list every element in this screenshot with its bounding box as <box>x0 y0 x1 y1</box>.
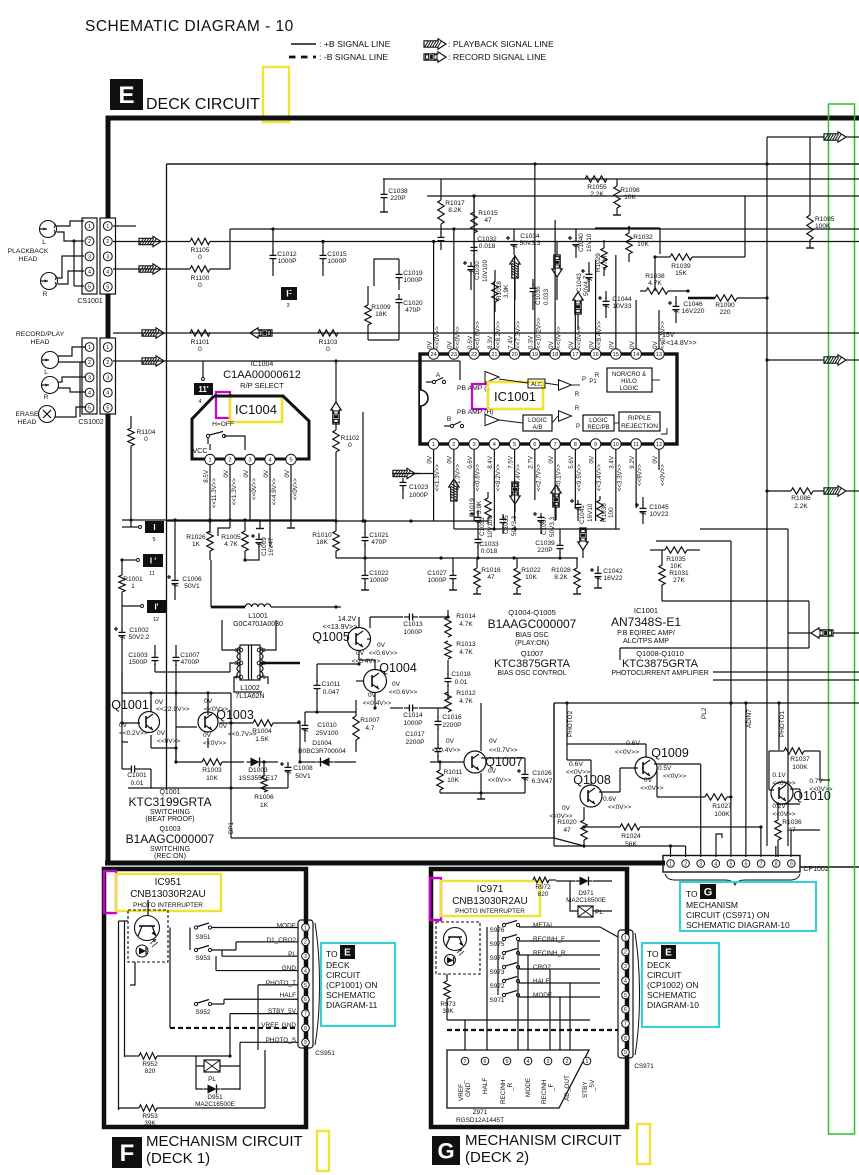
switch S974 <box>490 949 600 963</box>
svg-text:C1007: C1007 <box>180 652 200 659</box>
svg-text:0V: 0V <box>392 681 401 688</box>
record/play head label <box>16 331 65 346</box>
playback arrow 2 <box>139 264 161 274</box>
wires transformer <box>155 620 300 692</box>
IC1001 pin 3 voltage <box>467 455 482 491</box>
IC1001 pin 11 <box>631 439 641 449</box>
svg-text:S972: S972 <box>490 983 505 990</box>
svg-text:LOGIC: LOGIC <box>620 386 639 392</box>
IC1001 pin 10 <box>611 439 621 449</box>
IC1004 pin 4 <box>265 454 275 464</box>
svg-text:2200P: 2200P <box>405 739 425 746</box>
IC1001 pin 4 voltage <box>487 455 502 491</box>
IC1001 PB AMP H <box>457 409 499 426</box>
svg-text:G: G <box>437 1138 454 1163</box>
svg-text:2: 2 <box>106 239 109 245</box>
svg-text:PL: PL <box>595 909 603 916</box>
svg-text:R1001: R1001 <box>123 576 143 583</box>
magenta highlight IC1004 <box>216 392 230 418</box>
svg-text:50V3.3: 50V3.3 <box>549 516 556 537</box>
svg-text:15: 15 <box>613 352 619 358</box>
svg-text:1: 1 <box>262 675 265 681</box>
svg-text:R1101: R1101 <box>191 339 210 346</box>
svg-text:0V: 0V <box>446 738 455 745</box>
svg-text:CIRCUIT (CS971) ON: CIRCUIT (CS971) ON <box>686 910 769 920</box>
label Q1001 type <box>129 789 212 823</box>
playback head label <box>8 248 49 263</box>
IC1004 pin 3 <box>245 454 255 464</box>
svg-text:R1024: R1024 <box>621 833 641 840</box>
wires heads to CS1002 <box>55 347 86 417</box>
svg-text:CNB13030R2AU: CNB13030R2AU <box>130 889 206 900</box>
svg-text:R1015: R1015 <box>478 210 498 217</box>
svg-text:0V: 0V <box>652 340 659 349</box>
IC1001 pin 16 <box>590 349 600 359</box>
IC1004 pin3 voltage <box>243 469 258 500</box>
svg-text:4.7K: 4.7K <box>459 621 473 628</box>
svg-text:METAL: METAL <box>533 922 554 929</box>
svg-text:P1: P1 <box>589 379 597 385</box>
svg-text:5: 5 <box>106 285 109 291</box>
IC1004 switch <box>206 421 245 450</box>
svg-text:50V1: 50V1 <box>184 583 200 590</box>
svg-text:0V: 0V <box>219 723 228 730</box>
transformer L1002 <box>234 645 265 700</box>
IC1001 pin 13 <box>654 349 664 359</box>
resistor R1001 <box>119 575 143 630</box>
svg-text:PL: PL <box>208 1076 216 1083</box>
svg-text:1: 1 <box>432 442 435 448</box>
yellow highlight IC971 <box>441 881 540 916</box>
svg-text:8: 8 <box>624 1036 627 1042</box>
svg-text:S971: S971 <box>490 997 505 1004</box>
resistor R1006 <box>254 760 274 809</box>
svg-text:3: 3 <box>286 303 289 309</box>
svg-text:16V22: 16V22 <box>603 575 622 582</box>
svg-text:<<0V>>: <<0V>> <box>488 777 511 784</box>
svg-text:8: 8 <box>775 861 778 867</box>
svg-text:0V: 0V <box>356 650 365 657</box>
svg-text:8.3V: 8.3V <box>487 335 494 349</box>
svg-text:1: 1 <box>624 935 627 941</box>
svg-text:25V100: 25V100 <box>316 730 339 737</box>
svg-text:6: 6 <box>484 1059 487 1065</box>
svg-text:R1027: R1027 <box>712 803 732 810</box>
transistor Q1010 <box>771 772 833 818</box>
svg-text:R1003: R1003 <box>202 767 222 774</box>
svg-text:: PLAYBACK SIGNAL LINE: : PLAYBACK SIGNAL LINE <box>448 39 554 49</box>
resistor R1038 <box>640 255 688 294</box>
svg-text:D1_CRO2: D1_CRO2 <box>267 937 297 944</box>
svg-text:<<8.2V>>: <<8.2V>> <box>495 321 502 349</box>
svg-text:L: L <box>44 369 48 376</box>
svg-text:C1033: C1033 <box>479 541 499 548</box>
svg-text:0V: 0V <box>629 340 636 349</box>
capacitor C1001 <box>122 740 151 788</box>
capacitor C1026 <box>517 758 553 793</box>
svg-text:0: 0 <box>198 346 202 353</box>
svg-text:C1026: C1026 <box>532 770 552 777</box>
svg-text:C1012: C1012 <box>277 251 297 258</box>
IC1001 pin 7 <box>550 439 560 449</box>
svg-text:I ': I ' <box>150 556 156 565</box>
yellow highlight near G label <box>637 1124 650 1164</box>
svg-text:C1035: C1035 <box>503 515 510 534</box>
svg-text:<<0V>>: <<0V>> <box>772 780 795 787</box>
svg-text:R1031: R1031 <box>669 570 689 577</box>
svg-text:16V220: 16V220 <box>682 308 705 315</box>
svg-text:3: 3 <box>262 648 265 654</box>
svg-text:R1020: R1020 <box>557 819 577 826</box>
capacitor C1042 <box>590 566 623 588</box>
IC1001 pin 8 voltage <box>568 455 583 491</box>
svg-text:HALF: HALF <box>482 1078 489 1094</box>
svg-text:0V: 0V <box>284 469 291 477</box>
svg-text:KTC3875GRTA: KTC3875GRTA <box>494 658 571 670</box>
svg-text:<<0V>>: <<0V>> <box>556 326 563 349</box>
svg-text:4.7M: 4.7M <box>602 256 609 270</box>
svg-text:R1018: R1018 <box>496 281 503 300</box>
svg-text:0V: 0V <box>562 805 571 812</box>
svg-text:4: 4 <box>106 391 109 397</box>
svg-text:PHOTO1: PHOTO1 <box>779 710 786 737</box>
svg-text:P: P <box>576 424 580 430</box>
svg-text:4: 4 <box>268 458 271 464</box>
svg-text:C1043: C1043 <box>576 273 583 292</box>
capacitor C1037 <box>533 512 556 537</box>
capacitor C1031 <box>470 510 494 538</box>
svg-text:MECHANISM: MECHANISM <box>686 900 738 910</box>
svg-text:3: 3 <box>88 375 91 381</box>
svg-text:HALF: HALF <box>533 978 549 985</box>
svg-text:<<0V>>: <<0V>> <box>454 326 461 349</box>
transistor Q1007 <box>464 751 523 784</box>
svg-text:R1013: R1013 <box>456 641 476 648</box>
resistor R1022 <box>513 558 541 594</box>
svg-text:BIAS OSC: BIAS OSC <box>515 632 548 639</box>
IC1001 pin 24 voltage <box>426 326 441 349</box>
svg-text:4: 4 <box>493 442 496 448</box>
svg-text:<<0V>>: <<0V>> <box>659 464 666 486</box>
resistor R1015 <box>471 194 498 233</box>
junction top right <box>765 296 768 299</box>
svg-text:CS1002: CS1002 <box>78 419 103 426</box>
svg-text:8.2K: 8.2K <box>448 207 462 214</box>
playback arrow right mid <box>765 355 859 365</box>
net label ADIN7 <box>746 709 753 728</box>
capacitor C1014 <box>390 705 448 728</box>
svg-text:7: 7 <box>554 442 557 448</box>
svg-text:C1009: C1009 <box>261 537 268 556</box>
svg-text:7L1A62N: 7L1A62N <box>235 693 264 700</box>
svg-text:0V: 0V <box>223 469 230 477</box>
erase head <box>39 406 56 423</box>
IC1001 pin 22 voltage <box>467 321 482 349</box>
svg-text:HALF: HALF <box>280 992 296 999</box>
IC1001 pin 14 <box>631 349 641 359</box>
black chip 11prime <box>194 361 213 405</box>
svg-text:5: 5 <box>106 406 109 412</box>
capacitor C1003 <box>128 645 158 672</box>
svg-text:11: 11 <box>149 571 155 577</box>
svg-text:R1016: R1016 <box>481 567 501 574</box>
svg-text:I: I <box>153 523 155 532</box>
svg-text:Z971: Z971 <box>473 1109 488 1116</box>
black chip I 11 <box>122 554 163 577</box>
svg-text:SWITCHING: SWITCHING <box>150 809 190 816</box>
svg-text:R1039: R1039 <box>671 263 691 270</box>
capacitor C1018 <box>445 660 472 700</box>
transistor Q1004 <box>363 661 418 707</box>
svg-text:DECK: DECK <box>647 960 671 970</box>
svg-text:11': 11' <box>198 385 208 394</box>
svg-text:<<0V>>: <<0V>> <box>251 478 258 500</box>
svg-text:4: 4 <box>106 270 109 276</box>
svg-text:3: 3 <box>304 954 307 960</box>
svg-text:R1098: R1098 <box>620 187 640 194</box>
svg-text:<<0.6V>>: <<0.6V>> <box>389 689 418 696</box>
svg-text:6: 6 <box>745 861 748 867</box>
IC1004 pin1 voltage <box>203 469 218 508</box>
svg-text:2: 2 <box>228 458 231 464</box>
svg-text:4: 4 <box>624 978 627 984</box>
note to deck circuit E F <box>321 943 395 1026</box>
section label G <box>432 1132 622 1166</box>
svg-text:1SS355TE17: 1SS355TE17 <box>238 775 278 782</box>
svg-text:6: 6 <box>533 442 536 448</box>
svg-text:<<0.2V>>: <<0.2V>> <box>119 730 148 737</box>
resistor R1102 <box>333 423 360 521</box>
svg-text:(CP1001) ON: (CP1001) ON <box>326 980 378 990</box>
svg-text:C1016: C1016 <box>442 714 462 721</box>
svg-text:<<0.6V>>: <<0.6V>> <box>475 321 482 349</box>
switch S953 <box>194 942 236 962</box>
svg-text:7: 7 <box>464 1059 467 1065</box>
title text <box>85 18 294 35</box>
wire bus 529 <box>454 527 620 530</box>
svg-text:0V: 0V <box>568 340 575 349</box>
wire bus 703 <box>554 701 859 704</box>
svg-text:<<3.4V>>: <<3.4V>> <box>596 464 603 492</box>
svg-text:0: 0 <box>144 436 148 443</box>
svg-text:10K: 10K <box>525 574 537 581</box>
svg-text:820: 820 <box>538 891 549 898</box>
svg-text:R1102: R1102 <box>341 435 360 442</box>
svg-text:0V: 0V <box>488 768 497 775</box>
svg-text:0V: 0V <box>652 455 659 463</box>
svg-text:19: 19 <box>532 352 538 358</box>
svg-text:9.2V: 9.2V <box>629 455 636 469</box>
svg-text:7: 7 <box>624 1021 627 1027</box>
IC1001 pin 12 voltage <box>652 455 667 486</box>
svg-text:R1014: R1014 <box>456 613 476 620</box>
capacitor C1023 <box>392 474 429 500</box>
svg-text:0.6V: 0.6V <box>467 335 474 349</box>
IC1001 logic AB box <box>523 415 552 431</box>
IC1001 pin 18 <box>550 349 560 359</box>
wire top bus B <box>427 195 859 197</box>
svg-text:SCHEMATIC: SCHEMATIC <box>326 990 375 1000</box>
svg-text:PHOTOCURRENT AMPLIFIER: PHOTOCURRENT AMPLIFIER <box>611 670 708 677</box>
svg-text:F: F <box>120 1140 135 1167</box>
switch S976 <box>490 921 600 935</box>
svg-text:Q1007: Q1007 <box>521 649 544 658</box>
svg-text:0V: 0V <box>263 469 270 477</box>
svg-text:CRO2: CRO2 <box>533 964 551 971</box>
svg-text:R1086: R1086 <box>791 495 811 502</box>
svg-text:14: 14 <box>633 352 639 358</box>
op-amp U IC1004 body <box>192 396 309 459</box>
svg-text:1: 1 <box>106 345 109 351</box>
wires IC951 interrupter <box>119 900 149 1110</box>
transistor Q1003 <box>198 708 257 747</box>
IC1001 pin 6 <box>530 439 540 449</box>
IC1004 pin 2 <box>225 454 235 464</box>
svg-text:C1046: C1046 <box>683 301 703 308</box>
svg-text:L1001: L1001 <box>248 613 268 620</box>
svg-text:: RECORD SIGNAL LINE: : RECORD SIGNAL LINE <box>448 52 546 62</box>
resistor R1103 <box>318 330 338 353</box>
svg-text:7.4V: 7.4V <box>507 335 514 349</box>
svg-text:<<0V>>: <<0V>> <box>157 738 180 745</box>
svg-text:C1023: C1023 <box>409 484 429 491</box>
switch S971 <box>490 991 600 1005</box>
diode D951 <box>195 1066 240 1108</box>
magenta highlight IC1001 <box>472 384 488 409</box>
IC1001 pin 18 voltage <box>548 326 563 349</box>
svg-text:0V: 0V <box>377 642 386 649</box>
svg-text:0V: 0V <box>426 340 433 349</box>
playback arrow below ic <box>393 468 434 478</box>
svg-text:<<0V>>: <<0V>> <box>663 773 686 780</box>
wires photo section <box>554 744 830 846</box>
resistor R1101 <box>190 330 210 353</box>
svg-text:E: E <box>118 82 134 109</box>
svg-text:3.9K: 3.9K <box>476 500 483 514</box>
svg-text:Q1001: Q1001 <box>111 698 149 712</box>
svg-text:CS951: CS951 <box>315 1050 335 1057</box>
svg-text:0: 0 <box>326 346 330 353</box>
F signal MODE <box>277 923 296 930</box>
svg-text:1000P: 1000P <box>327 258 347 265</box>
svg-text:15K: 15K <box>675 270 687 277</box>
svg-text:PHOTO2: PHOTO2 <box>567 710 574 737</box>
svg-text:R1009: R1009 <box>371 304 391 311</box>
svg-text:47: 47 <box>563 827 571 834</box>
resistor R953 <box>119 1050 266 1127</box>
svg-text:MA2C16500E: MA2C16500E <box>566 897 606 904</box>
svg-text:9: 9 <box>790 861 793 867</box>
F signal PHOTO_T <box>258 980 298 987</box>
capacitor C1045 <box>635 497 669 524</box>
svg-text:<<0.1V>>: <<0.1V>> <box>556 464 563 492</box>
resistor R1003 <box>176 759 244 782</box>
svg-text:C1015: C1015 <box>327 251 347 258</box>
playback arrow right top <box>767 132 859 164</box>
svg-text:2: 2 <box>684 861 687 867</box>
svg-text:MECHANISM CIRCUIT: MECHANISM CIRCUIT <box>465 1132 622 1149</box>
resistor R1018 <box>492 270 510 312</box>
svg-text:0V: 0V <box>588 455 595 463</box>
section label F <box>112 1133 303 1168</box>
svg-text:R1012: R1012 <box>456 690 476 697</box>
svg-text:Q1004-Q1005: Q1004-Q1005 <box>508 608 556 617</box>
svg-text:C1041: C1041 <box>579 505 586 524</box>
svg-text:5: 5 <box>88 285 91 291</box>
svg-text:50V1: 50V1 <box>295 773 311 780</box>
photo interrupter IC951 symbol <box>128 910 168 962</box>
svg-text:10K: 10K <box>637 241 649 248</box>
svg-text:100K: 100K <box>714 811 730 818</box>
svg-text:Q1008-Q1010: Q1008-Q1010 <box>636 649 684 658</box>
svg-text:A: A <box>436 372 441 379</box>
svg-text:0.033: 0.033 <box>543 289 550 305</box>
IC1001 pin 5 <box>509 439 519 449</box>
svg-text:Q1004: Q1004 <box>379 661 417 675</box>
playback arrow pin2 up <box>449 479 459 501</box>
svg-text:RECORD/PLAY: RECORD/PLAY <box>16 331 65 338</box>
svg-text:<<0V>>: <<0V>> <box>615 749 639 756</box>
svg-text:10K: 10K <box>206 775 218 782</box>
resistor R1098 <box>613 179 640 215</box>
svg-text:10K: 10K <box>624 194 636 201</box>
svg-text:CS1001: CS1001 <box>77 298 102 305</box>
resistor R1009 <box>365 286 391 340</box>
resistor R1017 <box>438 179 466 250</box>
svg-text:<<0V>>: <<0V>> <box>576 326 583 349</box>
capacitor C1015 <box>320 240 348 276</box>
svg-text:G: G <box>704 886 713 898</box>
svg-text:(REC:ON): (REC:ON) <box>154 853 186 860</box>
legend -B signal line <box>289 52 388 62</box>
capacitor C1035 <box>500 514 519 536</box>
IC1001 pin 1 voltage <box>426 455 441 491</box>
svg-text:0V: 0V <box>157 730 166 737</box>
svg-text:1: 1 <box>304 925 307 931</box>
svg-text:0V: 0V <box>447 455 454 463</box>
svg-text:C1044: C1044 <box>612 296 632 303</box>
svg-text:REJECTION: REJECTION <box>621 423 658 430</box>
capacitor C1011 <box>314 664 341 712</box>
svg-text:<<4.9V>>: <<4.9V>> <box>271 478 278 506</box>
svg-text:R953: R953 <box>142 1113 158 1120</box>
svg-text:RECINH_F: RECINH_F <box>533 936 565 943</box>
resistor R1037 <box>769 748 820 790</box>
yellow highlight IC951 <box>116 874 221 911</box>
svg-text:1000P: 1000P <box>403 720 423 727</box>
svg-text:R: R <box>44 394 49 401</box>
svg-text:C1AA00000612: C1AA00000612 <box>223 369 301 381</box>
svg-text:10: 10 <box>613 442 619 448</box>
svg-text:: -B SIGNAL LINE: : -B SIGNAL LINE <box>319 52 388 62</box>
capacitor C1039 <box>535 529 563 558</box>
capacitor C1019 <box>374 259 423 290</box>
capacitor C1010 <box>297 712 339 742</box>
resistor R1016 <box>473 558 501 594</box>
svg-text:L: L <box>42 239 46 246</box>
resistor R1032 <box>626 226 653 262</box>
svg-text:SCHEMATIC DIAGRAM - 10: SCHEMATIC DIAGRAM - 10 <box>85 18 294 35</box>
svg-text:3: 3 <box>106 375 109 381</box>
transistor Q1001 <box>111 698 180 745</box>
svg-text:R1017: R1017 <box>445 200 465 207</box>
svg-text:0.1V: 0.1V <box>772 772 786 779</box>
svg-text:SCHEMATIC DIAGRAM-10: SCHEMATIC DIAGRAM-10 <box>686 920 790 930</box>
IC1001 pin 19 voltage <box>528 317 543 349</box>
resistor R1020 <box>557 807 587 846</box>
IC1004 pin5 voltage <box>284 469 299 500</box>
svg-text:S973: S973 <box>490 969 505 976</box>
